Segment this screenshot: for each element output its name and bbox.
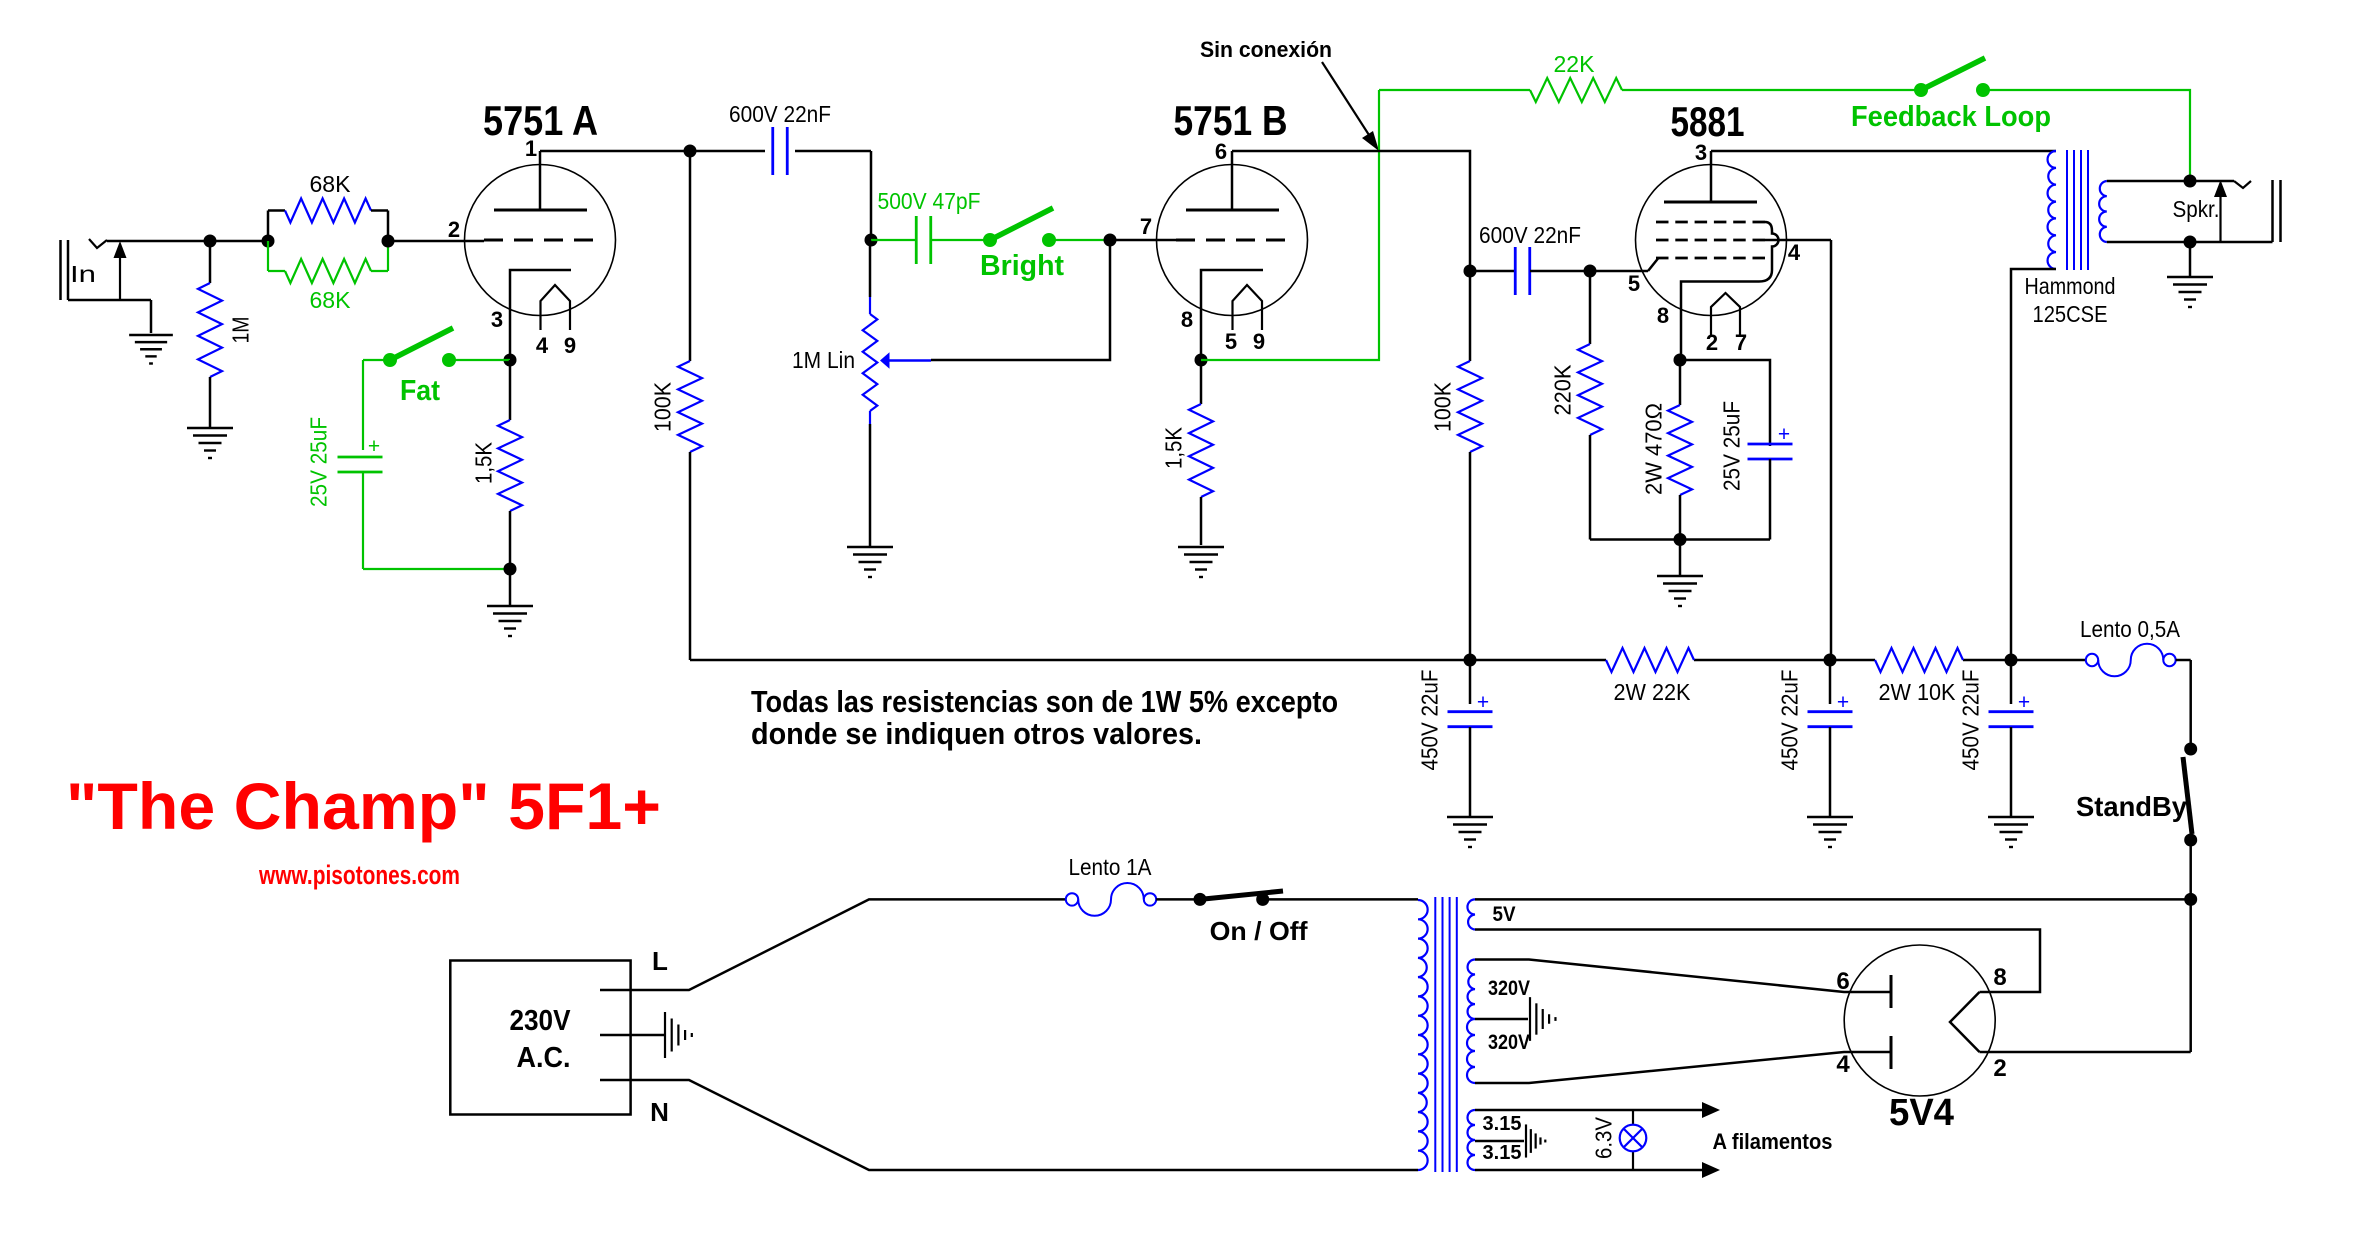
capacitor 500V 47pF (green) (871, 216, 990, 264)
tube 5751A cathode (510, 270, 571, 360)
tube 5881 screen lead pin 4 (1765, 239, 1831, 242)
label Bright (980, 250, 1064, 282)
tube 5881 heater (1711, 293, 1740, 335)
label Lento 1A (1069, 854, 1153, 880)
node B+ second cap (1824, 654, 1837, 667)
svg-text:9: 9 (1253, 329, 1265, 354)
svg-text:www.pisotones.com: www.pisotones.com (258, 860, 460, 890)
label + first PSU cap (1477, 691, 1489, 714)
svg-text:1,5K: 1,5K (470, 441, 496, 484)
label + second PSU cap (1837, 691, 1849, 714)
switch On/Off contacts (1194, 893, 1270, 906)
fuse Lento 1A (1066, 883, 1156, 916)
wire L (600, 899, 1066, 990)
svg-text:Sin conexión: Sin conexión (1200, 37, 1332, 62)
label 3.15 upper (1483, 1113, 1522, 1135)
wire heater bottom (1475, 1169, 1702, 1172)
svg-text:1: 1 (525, 136, 537, 161)
label 450V 22uF second (1776, 670, 1802, 771)
switch Fat contacts (383, 353, 456, 367)
speaker jack (2234, 180, 2281, 242)
svg-text:5: 5 (1628, 271, 1640, 296)
arrow heater top (1702, 1102, 1720, 1118)
ground under pot (847, 547, 893, 577)
wire On/Off to PT (1263, 898, 1418, 901)
svg-text:68K: 68K (310, 287, 352, 313)
svg-text:230V: 230V (510, 1005, 572, 1037)
ground mains earth (665, 1012, 692, 1058)
fuse Lento 0,5A (2086, 644, 2176, 677)
label L (652, 946, 668, 976)
transformer PT 5V winding (1467, 899, 1475, 929)
pin 6 label 5V4 (1836, 968, 1849, 995)
arrow heater bottom (1702, 1162, 1720, 1178)
svg-text:1M: 1M (227, 317, 253, 344)
label A filamentos (1713, 1129, 1833, 1154)
label N (650, 1097, 669, 1127)
label 600V 22nF second (1479, 222, 1581, 248)
pin 5 label 5881 (1628, 271, 1640, 296)
switch On/Off lever (1200, 891, 1283, 899)
wire 5751A plate to node (540, 150, 690, 153)
svg-text:4: 4 (1788, 240, 1801, 265)
wire heater top (1475, 1109, 1702, 1112)
svg-text:3: 3 (491, 307, 503, 332)
label 1,5K second (1160, 426, 1186, 469)
transformer PT 320V lower (1467, 1019, 1475, 1083)
label 25V 25uF (305, 417, 331, 507)
label 1M (227, 317, 253, 344)
node cathode 5751B (1195, 354, 1208, 367)
svg-text:Fat: Fat (400, 375, 440, 407)
tube 5751B cathode (1201, 270, 1263, 360)
svg-text:Bright: Bright (980, 250, 1064, 282)
transformer OT secondary (2099, 181, 2107, 242)
label Spkr (2173, 196, 2220, 222)
wire input to 1M node (210, 240, 268, 243)
pin 4 label (1788, 240, 1801, 265)
svg-text:+: + (1778, 423, 1790, 446)
transformer PT 320V upper (1468, 960, 1475, 1020)
box 230V AC (450, 961, 630, 1115)
svg-text:+: + (1837, 691, 1849, 714)
svg-text:5V4: 5V4 (1889, 1092, 1954, 1134)
label 2W 10K (1879, 679, 1957, 705)
svg-text:25V 25uF: 25V 25uF (1718, 401, 1744, 491)
label Lento 0,5A (2080, 616, 2181, 642)
label 500V 47pF (878, 188, 981, 214)
svg-text:In: In (70, 261, 96, 287)
resistor 22K feedback (green) (1379, 78, 1921, 102)
wire screen 5881 down (1830, 240, 1833, 660)
tube 5V4 filament (1950, 992, 1980, 1052)
node coupling to pot (865, 234, 878, 247)
transformer PT core (1435, 897, 1457, 1172)
svg-text:4: 4 (1836, 1051, 1850, 1078)
input jack In (61, 239, 211, 333)
pin 9 label (564, 333, 576, 358)
label + third PSU cap (2018, 691, 2030, 714)
transformer PT heater winding (1468, 1110, 1476, 1170)
svg-text:Lento 0,5A: Lento 0,5A (2080, 616, 2181, 642)
tube 5V4 plate 4 (1890, 1036, 1893, 1069)
resistor 68K top (268, 199, 388, 223)
wire fuse to standby (2176, 660, 2191, 749)
transformer PT primary (1418, 900, 1428, 1170)
label 6.3V (1590, 1116, 1616, 1159)
wire 5881 plate to OT (1711, 150, 2056, 153)
wire feedback to speaker (1983, 90, 2190, 181)
label www.pisotones.com (258, 860, 460, 890)
wire 68K to grid 5751A (388, 240, 484, 243)
svg-text:2: 2 (1706, 330, 1718, 355)
switch Bright wire (1049, 239, 1110, 241)
svg-text:6: 6 (1836, 968, 1849, 995)
label 125CSE (2033, 301, 2108, 327)
tube 5V4 plate 6 (1890, 975, 1893, 1008)
label 25V 25uF cathode (1718, 401, 1744, 491)
label + cathode cap (1778, 423, 1790, 446)
svg-text:2: 2 (1993, 1055, 2006, 1082)
label 5V (1493, 903, 1516, 926)
svg-text:4: 4 (536, 333, 549, 358)
svg-text:1M Lin: 1M Lin (792, 347, 855, 373)
label 450V 22uF first (1416, 670, 1442, 771)
svg-text:A filamentos: A filamentos (1713, 1129, 1833, 1154)
svg-text:Feedback Loop: Feedback Loop (1851, 101, 2051, 133)
svg-text:450V 22uF: 450V 22uF (1957, 670, 1983, 771)
label On / Off (1210, 916, 1308, 946)
node standby/5V junction (2184, 893, 2197, 906)
node B+ first cap (1464, 654, 1477, 667)
svg-text:450V 22uF: 450V 22uF (1416, 670, 1442, 771)
node cathode bottom 5751A (504, 563, 517, 576)
node 68K left junction (262, 235, 275, 248)
svg-text:6: 6 (1215, 139, 1227, 164)
label tube 5751 A (483, 97, 598, 144)
tube 5751B plate (1186, 151, 1279, 210)
svg-text:3.15: 3.15 (1483, 1113, 1522, 1135)
svg-text:600V 22nF: 600V 22nF (1479, 222, 1581, 248)
note line 2 (751, 716, 1202, 751)
transformer OT primary (2011, 151, 2056, 660)
capacitor 450V 22uF first (1448, 660, 1493, 817)
label 220K (1549, 364, 1575, 416)
pin 5 label (1225, 329, 1237, 354)
pin 3 label (1695, 140, 1707, 165)
resistor 1,5K second (1189, 360, 1213, 545)
resistor 2W 22K (1606, 648, 1694, 672)
tube 5751A grid (484, 239, 593, 242)
tube 5751B envelope (1157, 165, 1308, 316)
svg-text:Hammond: Hammond (2025, 273, 2116, 299)
switch Fat lever (390, 328, 453, 360)
wire B+ rail (690, 659, 2086, 662)
svg-text:Todas las resistencias son de: Todas las resistencias son de 1W 5% exce… (751, 684, 1338, 719)
label 22K feedback (1554, 51, 1596, 77)
svg-text:N: N (650, 1097, 669, 1127)
svg-text:5751 B: 5751 B (1174, 97, 1288, 144)
capacitor 450V 22uF second (1808, 660, 1853, 817)
wire node to grid 5751B (1110, 239, 1176, 242)
tube 5881 envelope (1636, 165, 1787, 316)
pin 3 label (491, 307, 503, 332)
label 2W 470 (1640, 403, 1666, 495)
svg-text:3: 3 (1695, 140, 1707, 165)
svg-text:450V 22uF: 450V 22uF (1776, 670, 1802, 771)
pin 4 label 5V4 (1836, 1051, 1850, 1078)
ground under 1,5K first (487, 569, 533, 636)
svg-text:8: 8 (1657, 303, 1669, 328)
ground under input jack (129, 335, 173, 364)
svg-text:5751 A: 5751 A (483, 97, 598, 144)
pin 8 label 5V4 (1993, 964, 2006, 991)
input jack label In (70, 261, 96, 287)
resistor 2W 470 (1668, 360, 1692, 540)
switch Bright contacts (983, 233, 1056, 247)
svg-text:9: 9 (564, 333, 576, 358)
ground under speaker (2167, 242, 2213, 307)
svg-text:500V 47pF: 500V 47pF (878, 188, 981, 214)
pin 2 label (448, 217, 460, 242)
title The Champ 5F1+ (66, 769, 661, 843)
wire grid node down to wiper (931, 240, 1110, 360)
node 68K right junction (382, 235, 395, 248)
wire cap1 to pot node (870, 151, 873, 240)
svg-text:2W 470Ω: 2W 470Ω (1640, 403, 1666, 495)
label tube 5881 (1671, 98, 1745, 145)
wire standby down (2189, 840, 2192, 1052)
label 320V lower (1488, 1031, 1530, 1054)
resistor 1M (198, 241, 222, 428)
ground under 5881 cathode (1657, 540, 1703, 607)
wire 320V upper to pin 6 (1475, 960, 1891, 993)
wire OT secondary bottom (2107, 241, 2273, 244)
resistor 2W 10K (1875, 648, 1963, 672)
svg-text:donde se indiquen otros valore: donde se indiquen otros valores. (751, 716, 1202, 751)
svg-text:6.3V: 6.3V (1590, 1116, 1616, 1159)
label 100K second (1429, 381, 1455, 432)
wire to grid 5881 (1590, 259, 1658, 272)
label 3.15 lower (1483, 1142, 1522, 1164)
resistor 68K bottom (green) (268, 259, 388, 283)
label tube 5V4 (1889, 1092, 1954, 1134)
svg-text:320V: 320V (1488, 1031, 1530, 1054)
resistor 1,5K first (498, 360, 522, 569)
switch Feedback Loop contacts (1914, 83, 1990, 97)
label 450V 22uF third (1957, 670, 1983, 771)
ground under 1M (187, 428, 233, 458)
capacitor 25V 25uF cathode (1680, 444, 1793, 540)
node grid 5751B (1104, 234, 1117, 247)
svg-text:+: + (368, 435, 380, 458)
svg-text:8: 8 (1993, 964, 2006, 991)
svg-text:2W 10K: 2W 10K (1879, 679, 1957, 705)
wire 5V top (1475, 898, 2191, 901)
label 68K bottom (310, 287, 352, 313)
label StandBy (2076, 791, 2187, 822)
resistor 100K first (678, 151, 702, 660)
speaker arrow (2214, 180, 2227, 242)
label 68K top (310, 171, 352, 197)
ground 320V center tap (1530, 997, 1555, 1041)
resistor 220K (1578, 271, 1680, 540)
capacitor 600V 22nF second (1470, 247, 1590, 295)
input signal arrow (114, 241, 127, 300)
label Fat (400, 375, 440, 407)
wire 68K risers (268, 211, 388, 272)
svg-text:100K: 100K (649, 381, 675, 432)
pin 8 label (1181, 307, 1193, 332)
switch Fat wire (363, 359, 510, 361)
wire N (600, 1080, 1418, 1170)
wire 320V center tap (1475, 1018, 1528, 1021)
ground heater center tap (1526, 1124, 1545, 1157)
pin 8 label 5881 (1657, 303, 1669, 328)
svg-text:L: L (652, 946, 668, 976)
node cathode 5751A (504, 354, 517, 367)
pin 7 label 5881 (1735, 330, 1747, 355)
capacitor 25V 25uF (green) (338, 360, 511, 569)
label 320V upper (1488, 977, 1530, 1000)
svg-text:2W 22K: 2W 22K (1614, 679, 1692, 705)
tube 5881 plate (1664, 151, 1757, 202)
svg-text:Spkr.: Spkr. (2173, 196, 2220, 222)
svg-text:100K: 100K (1429, 381, 1455, 432)
label 100K first (649, 381, 675, 432)
capacitor 450V 22uF third (1989, 660, 2034, 817)
tube 5751B grid (1176, 239, 1285, 242)
node speaker top (2184, 175, 2197, 188)
label Hammond (2025, 273, 2116, 299)
node 5881 cathode (1674, 354, 1687, 367)
label 600V 22nF first (729, 101, 831, 127)
svg-text:220K: 220K (1549, 364, 1575, 416)
wire 5751B plate to cap2 (1232, 151, 1470, 271)
pin 6 label (1215, 139, 1227, 164)
resistor 100K second (1458, 271, 1482, 660)
wire fuse to On/Off (1156, 898, 1200, 901)
tube 5751B heater (1233, 285, 1263, 330)
switch Feedback Loop lever (1921, 58, 1985, 90)
label 1M Lin (792, 347, 855, 373)
svg-text:3.15: 3.15 (1483, 1142, 1522, 1164)
wire feedback vertical (1201, 90, 1379, 360)
svg-text:On / Off: On / Off (1210, 916, 1308, 946)
svg-text:"The Champ" 5F1+: "The Champ" 5F1+ (66, 769, 661, 843)
node speaker bottom (2184, 236, 2197, 249)
pin 9b label (1253, 329, 1265, 354)
node cap2 left (1464, 265, 1477, 278)
tube 5881 g3-cathode link (1681, 222, 1779, 360)
svg-text:2: 2 (448, 217, 460, 242)
label Sin conexión (1200, 37, 1332, 62)
svg-text:22K: 22K (1554, 51, 1596, 77)
svg-text:5881: 5881 (1671, 98, 1745, 145)
ground under PSU cap second (1807, 817, 1853, 847)
svg-text:+: + (2018, 691, 2030, 714)
svg-text:1,5K: 1,5K (1160, 426, 1186, 469)
svg-text:7: 7 (1735, 330, 1747, 355)
lamp 6.3V (1620, 1110, 1647, 1170)
label A.C. (517, 1042, 571, 1074)
tube 5881 grids (1656, 222, 1765, 258)
label + on 25uF cap (368, 435, 380, 458)
wire heater center tap (1475, 1140, 1524, 1143)
node input/1M junction (204, 235, 217, 248)
pin 7 label (1140, 214, 1152, 239)
wire pin 2 to standby (1980, 1051, 2191, 1054)
wire 5V bottom to pin 8 (1475, 930, 2040, 993)
ground under PSU cap third (1988, 817, 2034, 847)
tube 5751A envelope (465, 165, 616, 316)
svg-text:68K: 68K (310, 171, 352, 197)
potentiometer 1M Lin (863, 240, 931, 547)
note line 1 (751, 684, 1338, 719)
node 5881 cathode bottom (1674, 533, 1687, 546)
svg-text:StandBy: StandBy (2076, 791, 2187, 822)
ground under 1,5K second (1178, 547, 1224, 577)
label 1,5K first (470, 441, 496, 484)
pin 1 label (525, 136, 537, 161)
label Feedback Loop (1851, 101, 2051, 133)
label 2W 22K (1614, 679, 1692, 705)
svg-text:25V 25uF: 25V 25uF (305, 417, 331, 507)
pin 4 label (536, 333, 549, 358)
transformer OT core (2067, 150, 2088, 270)
svg-text:5V: 5V (1493, 903, 1516, 926)
ground under PSU cap first (1447, 817, 1493, 847)
tube 5V4 envelope (1844, 945, 1995, 1096)
switch StandBy lever (2183, 757, 2192, 834)
wire 320V lower to pin 4 (1475, 1052, 1891, 1083)
svg-text:125CSE: 125CSE (2033, 301, 2108, 327)
svg-text:5: 5 (1225, 329, 1237, 354)
svg-text:A.C.: A.C. (517, 1042, 571, 1074)
svg-text:320V: 320V (1488, 977, 1530, 1000)
node cap2 right (1584, 265, 1597, 278)
svg-text:Lento 1A: Lento 1A (1069, 854, 1153, 880)
pin 2 label 5V4 (1993, 1055, 2006, 1082)
arrow Sin conexión (1322, 62, 1379, 151)
wire OT secondary top (2107, 180, 2234, 183)
svg-text:8: 8 (1181, 307, 1193, 332)
tube 5751A plate (494, 151, 587, 210)
label tube 5751 B (1174, 97, 1288, 144)
switch StandBy contacts (2184, 743, 2197, 847)
tube 5751A heater (541, 285, 571, 330)
svg-text:+: + (1477, 691, 1489, 714)
label 230V (510, 1005, 572, 1037)
wire mains earth stub (600, 1034, 664, 1037)
node B+ third cap (2005, 654, 2018, 667)
capacitor 600V 22nF first (690, 127, 871, 175)
svg-text:7: 7 (1140, 214, 1152, 239)
wire cathode to cap branch (1680, 360, 1770, 446)
node plate/100K junction (684, 145, 697, 158)
switch Bright lever (990, 208, 1053, 240)
svg-text:600V 22nF: 600V 22nF (729, 101, 831, 127)
pin 2 label 5881 (1706, 330, 1718, 355)
